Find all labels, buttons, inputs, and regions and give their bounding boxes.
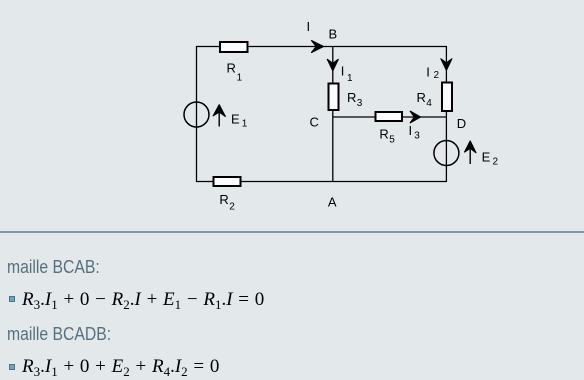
svg-text:E: E (231, 111, 240, 126)
svg-text:R: R (347, 90, 356, 105)
svg-text:R: R (379, 127, 388, 142)
svg-text:E: E (482, 150, 491, 165)
svg-text:5: 5 (389, 135, 395, 146)
svg-text:D: D (457, 116, 466, 131)
svg-text:R: R (227, 61, 236, 76)
svg-text:R: R (219, 192, 228, 207)
svg-text:4: 4 (426, 98, 432, 109)
svg-text:I: I (341, 63, 345, 78)
svg-text:I: I (426, 64, 430, 79)
svg-text:I: I (307, 19, 311, 34)
svg-text:2: 2 (493, 156, 499, 167)
svg-text:R: R (417, 90, 426, 105)
svg-text:2: 2 (434, 70, 440, 81)
svg-text:B: B (329, 27, 338, 42)
svg-text:I: I (409, 123, 413, 138)
svg-text:3: 3 (414, 131, 420, 142)
svg-text:3: 3 (357, 98, 363, 109)
svg-text:1: 1 (242, 119, 248, 130)
svg-text:C: C (310, 115, 319, 130)
svg-text:2: 2 (229, 202, 235, 213)
svg-text:1: 1 (237, 73, 243, 84)
svg-text:1: 1 (347, 73, 353, 84)
svg-text:A: A (328, 195, 337, 210)
